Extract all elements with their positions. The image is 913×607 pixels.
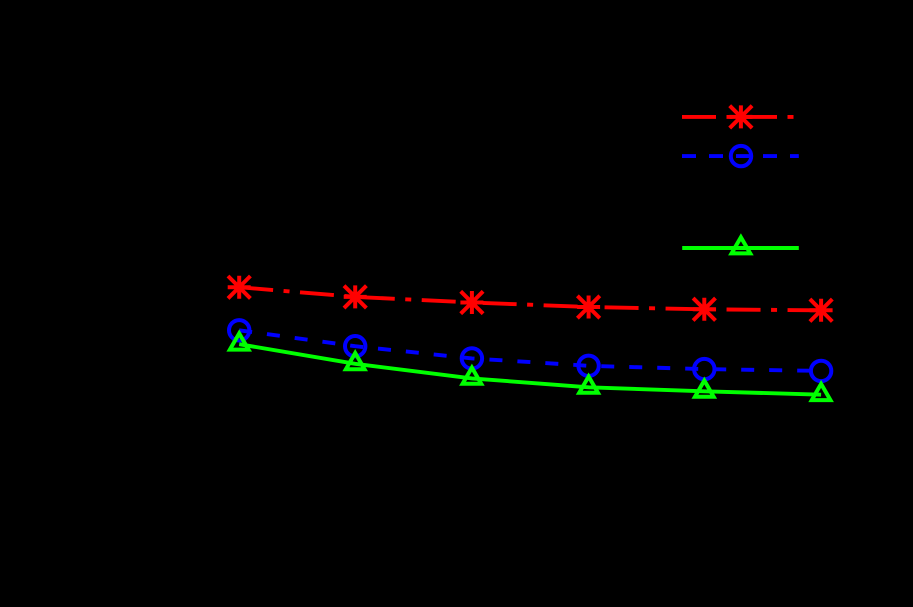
circle marker 3 bbox=[462, 348, 482, 368]
triangle marker 6 bbox=[812, 384, 831, 400]
legend green solid sample line bbox=[682, 246, 799, 250]
asterisk marker 3 bbox=[460, 291, 483, 314]
circle marker 6 bbox=[811, 361, 831, 381]
green triangle markers bbox=[230, 333, 831, 400]
legend green triangle marker bbox=[732, 237, 751, 253]
blue circle markers bbox=[229, 320, 831, 381]
legend blue dashed sample line bbox=[682, 154, 799, 158]
legend red dash-dot sample line bbox=[682, 115, 799, 119]
asterisk marker 1 bbox=[228, 276, 251, 299]
circle marker 2 bbox=[345, 336, 365, 356]
triangle marker 5 bbox=[695, 381, 714, 397]
red asterisk markers bbox=[228, 276, 833, 322]
blue dashed data line (series 2) bbox=[239, 330, 821, 371]
circle marker 5 bbox=[694, 359, 714, 379]
triangle marker 4 bbox=[579, 377, 598, 393]
triangle marker 1 bbox=[230, 333, 249, 349]
asterisk marker 6 bbox=[810, 299, 833, 322]
triangle marker 3 bbox=[463, 368, 482, 384]
circle marker 1 bbox=[229, 320, 249, 340]
circle marker 4 bbox=[578, 356, 598, 376]
asterisk marker 2 bbox=[344, 285, 367, 308]
green solid data line (series 3) bbox=[239, 344, 821, 395]
asterisk marker 4 bbox=[577, 296, 600, 319]
legend red asterisk marker bbox=[729, 105, 752, 128]
legend blue circle marker bbox=[731, 146, 751, 166]
red dash-dot data line (series 1) bbox=[239, 287, 821, 310]
triangle marker 2 bbox=[346, 353, 365, 369]
asterisk marker 5 bbox=[693, 298, 716, 321]
